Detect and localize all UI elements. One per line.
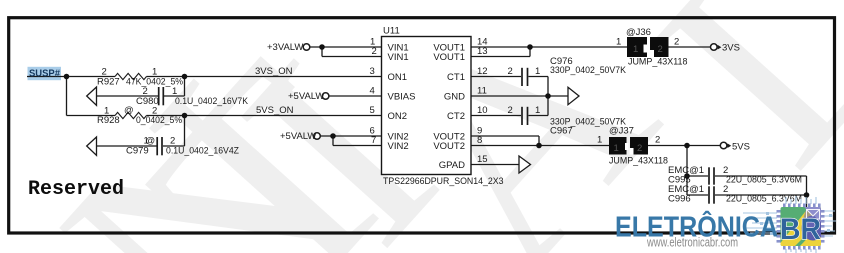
svg-text:2: 2 bbox=[372, 46, 377, 57]
svg-text:JUMP_43X118: JUMP_43X118 bbox=[609, 156, 668, 167]
svg-text:1: 1 bbox=[535, 105, 540, 116]
svg-text:VBIAS: VBIAS bbox=[388, 92, 416, 103]
svg-text:@: @ bbox=[124, 105, 134, 116]
svg-text:12: 12 bbox=[477, 66, 488, 77]
svg-text:2: 2 bbox=[637, 143, 642, 154]
svg-text:2: 2 bbox=[674, 37, 679, 48]
svg-text:1: 1 bbox=[614, 143, 619, 154]
svg-text:CT2: CT2 bbox=[447, 111, 465, 122]
svg-text:0_0402_5%: 0_0402_5% bbox=[136, 115, 182, 126]
svg-text:15: 15 bbox=[477, 154, 488, 165]
svg-text:VIN2: VIN2 bbox=[388, 141, 409, 152]
svg-text:TPS22966DPUR_SON14_2X3: TPS22966DPUR_SON14_2X3 bbox=[383, 176, 504, 187]
svg-text:GPAD: GPAD bbox=[439, 160, 465, 171]
svg-text:ON2: ON2 bbox=[388, 111, 408, 122]
svg-text:11: 11 bbox=[477, 86, 487, 97]
svg-text:C979: C979 bbox=[126, 145, 149, 156]
svg-text:2: 2 bbox=[655, 135, 660, 146]
svg-text:VOUT1: VOUT1 bbox=[433, 52, 465, 63]
svg-text:4: 4 bbox=[370, 86, 375, 97]
svg-text:8: 8 bbox=[477, 135, 482, 146]
svg-text:VIN1: VIN1 bbox=[388, 52, 409, 63]
svg-text:@J37: @J37 bbox=[609, 126, 634, 137]
svg-text:CT1: CT1 bbox=[447, 72, 465, 83]
svg-text:1: 1 bbox=[616, 37, 621, 48]
svg-text:10: 10 bbox=[477, 105, 488, 116]
svg-text:C967: C967 bbox=[550, 126, 573, 137]
svg-text:22U_0805_6.3V6M: 22U_0805_6.3V6M bbox=[726, 175, 802, 186]
svg-text:JUMP_43X118: JUMP_43X118 bbox=[628, 56, 688, 67]
svg-text:+5VALW: +5VALW bbox=[288, 91, 324, 102]
svg-text:VOUT2: VOUT2 bbox=[433, 141, 465, 152]
svg-text:+3VALW: +3VALW bbox=[267, 42, 303, 53]
svg-text:2: 2 bbox=[508, 66, 513, 77]
svg-text:5: 5 bbox=[370, 105, 375, 116]
svg-text:13: 13 bbox=[477, 46, 488, 57]
svg-text:1: 1 bbox=[535, 66, 540, 77]
svg-text:Reserved: Reserved bbox=[28, 178, 124, 201]
svg-text:1: 1 bbox=[633, 44, 638, 55]
svg-text:SUSP#: SUSP# bbox=[29, 69, 60, 80]
svg-text:1: 1 bbox=[597, 135, 602, 146]
svg-text:2: 2 bbox=[658, 44, 663, 55]
svg-text:+5VALW: +5VALW bbox=[280, 131, 316, 142]
svg-text:@J36: @J36 bbox=[626, 27, 651, 38]
svg-text:C996: C996 bbox=[668, 194, 691, 205]
svg-text:0.1U_0402_16V7K: 0.1U_0402_16V7K bbox=[175, 96, 249, 107]
svg-text:U11: U11 bbox=[383, 26, 400, 37]
svg-text:3VS_ON: 3VS_ON bbox=[255, 66, 293, 77]
svg-text:www.eletronicabr.com: www.eletronicabr.com bbox=[646, 235, 738, 249]
svg-text:R927: R927 bbox=[97, 76, 120, 87]
svg-text:R928: R928 bbox=[97, 115, 120, 126]
svg-text:3: 3 bbox=[370, 66, 375, 77]
svg-text:330P_0402_50V7K: 330P_0402_50V7K bbox=[550, 65, 627, 76]
svg-text:ON1: ON1 bbox=[388, 72, 408, 83]
svg-text:3VS: 3VS bbox=[722, 43, 740, 54]
svg-text:GND: GND bbox=[444, 92, 465, 103]
svg-text:2: 2 bbox=[508, 105, 513, 116]
svg-text:BR: BR bbox=[780, 213, 821, 246]
svg-text:0.1U_0402_16V4Z: 0.1U_0402_16V4Z bbox=[166, 145, 239, 156]
svg-text:5VS: 5VS bbox=[732, 141, 750, 152]
svg-text:7: 7 bbox=[371, 135, 376, 146]
svg-text:5VS_ON: 5VS_ON bbox=[256, 105, 294, 116]
